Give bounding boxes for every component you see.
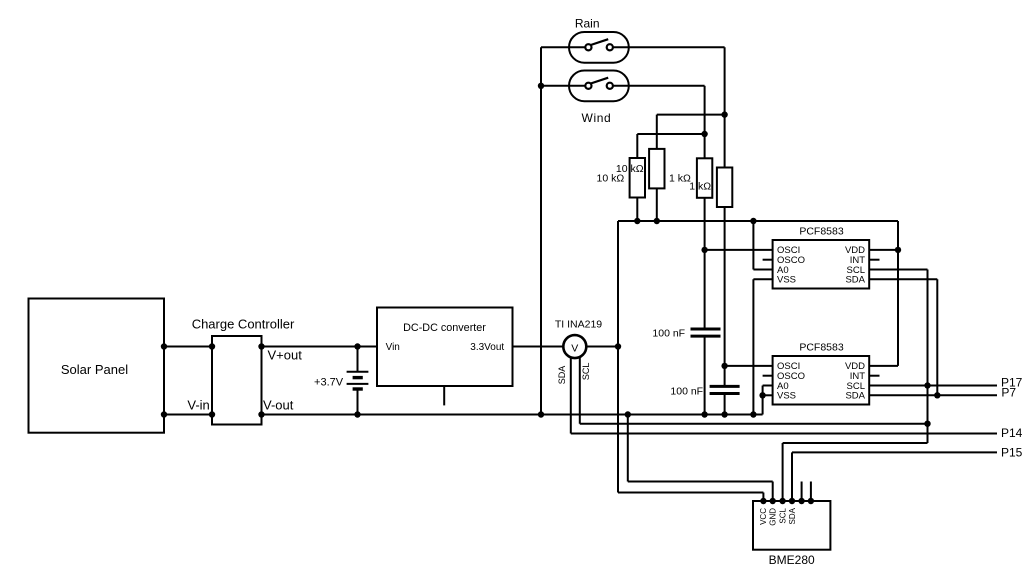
box DC-DC converter — [377, 308, 513, 387]
node solar minus — [161, 411, 167, 417]
wire 3.3V vertical feed — [617, 221, 619, 493]
wire U2 OSCI — [725, 365, 773, 367]
wire DC-DC ground stub — [443, 386, 445, 405]
wire R3 bottom to C1 — [704, 198, 706, 329]
node A0 bus — [750, 218, 756, 224]
svg-text:Solar Panel: Solar Panel — [61, 362, 128, 377]
wire U2 OSCO stub — [763, 375, 773, 377]
svg-text:3.3Vout: 3.3Vout — [470, 342, 504, 353]
switch contact wind right — [607, 83, 613, 89]
wire BME280 stub pin5 — [801, 482, 803, 502]
svg-text:SDA: SDA — [557, 366, 567, 385]
wire U1 VSS vertical to ground bus — [752, 279, 754, 414]
capacitor C2 top plate — [710, 385, 740, 388]
wire U1 SCL — [869, 269, 927, 271]
node U1 VDD — [895, 247, 901, 253]
wire P17 line — [869, 385, 997, 387]
node 3.3V tap — [615, 343, 621, 349]
node BME280 SCL pin — [779, 498, 785, 504]
resistor R4 1k — [717, 168, 732, 208]
wire U1 INT stub — [869, 259, 879, 261]
svg-text:DC-DC converter: DC-DC converter — [403, 322, 486, 334]
node cc V-in — [209, 411, 215, 417]
node BME280 GND pin — [770, 498, 776, 504]
node BME280 pin6 — [808, 498, 814, 504]
node BME280 pin5 — [798, 498, 804, 504]
wire U2 A0 — [763, 385, 773, 387]
wire BME280 SDA vertical — [791, 452, 793, 501]
wire R2 top lead — [656, 115, 658, 149]
node battery top — [354, 343, 360, 349]
wire rain switch left — [541, 46, 588, 48]
meter circle INA219 — [563, 335, 586, 358]
node cc V+out — [258, 343, 264, 349]
svg-text:Charge Controller: Charge Controller — [192, 317, 295, 332]
svg-text:1 kΩ: 1 kΩ — [689, 181, 711, 193]
svg-text:SCL: SCL — [778, 507, 787, 523]
wire VSS corner to bus — [753, 414, 762, 416]
wire BME280 VCC vertical — [762, 493, 764, 502]
wire U1 OSCO stub — [763, 259, 773, 261]
wire R1 bottom lead — [636, 198, 638, 222]
wire 3.3V top bus — [618, 220, 898, 222]
svg-text:+3.7V: +3.7V — [314, 376, 344, 388]
node SDA P7 — [934, 392, 940, 398]
svg-text:VSS: VSS — [777, 275, 796, 286]
node cc V-out — [258, 411, 264, 417]
svg-text:GND: GND — [769, 508, 778, 526]
switch contact rain left — [585, 44, 591, 50]
resistor R2 10k — [649, 149, 664, 189]
op-amp U1 PCF8583 box — [773, 240, 870, 289]
node SCL ina — [924, 421, 930, 427]
resistor R3 1k — [697, 158, 712, 198]
wire rain vertical — [724, 47, 726, 114]
svg-text:10 kΩ: 10 kΩ — [596, 172, 624, 184]
svg-text:SDA: SDA — [788, 507, 797, 524]
svg-text:SDA: SDA — [845, 275, 865, 286]
svg-text:P15: P15 — [1001, 445, 1023, 459]
svg-text:V-in: V-in — [187, 398, 209, 413]
svg-text:V: V — [571, 342, 578, 354]
node wind common — [538, 83, 544, 89]
op-amp U2 PCF8583 box — [773, 356, 870, 405]
node C2 ground — [721, 411, 727, 417]
box Charge Controller — [212, 336, 262, 425]
node U1 OSCI tap — [701, 247, 707, 253]
wire battery top lead — [357, 347, 359, 372]
wire U2 INT stub — [869, 375, 879, 377]
svg-text:BME280: BME280 — [769, 553, 815, 567]
switch contact wind left — [585, 83, 591, 89]
wire U2 VSS down corner — [762, 395, 764, 414]
wire rain branch horizontal — [657, 114, 725, 116]
switch contact rain right — [607, 44, 613, 50]
wire C2 bottom lead — [724, 394, 726, 415]
wire wind switch right — [610, 85, 705, 87]
switch pill Rain — [569, 32, 629, 63]
wire GND feed vertical — [627, 415, 629, 482]
node VSS ground — [750, 411, 756, 417]
wire DC-DC 3.3V output to INA219 — [513, 346, 619, 348]
svg-text:TI INA219: TI INA219 — [555, 319, 602, 331]
wire BME280 VCC horizontal — [618, 492, 763, 494]
node SCL P17 — [924, 382, 930, 388]
box BME280 — [753, 501, 830, 550]
svg-text:PCF8583: PCF8583 — [799, 226, 844, 238]
battery B1 plate short top — [353, 376, 363, 379]
node BME280 VCC pin — [760, 498, 766, 504]
wire U2 VSS — [763, 394, 773, 396]
node BME280 SDA pin — [789, 498, 795, 504]
svg-text:P14: P14 — [1001, 426, 1023, 440]
node R1 bus — [634, 218, 640, 224]
svg-text:Vin: Vin — [386, 342, 400, 353]
node U2 VSS A0 — [759, 392, 765, 398]
node switch common ground — [538, 411, 544, 417]
battery B1 plate long bottom — [347, 383, 369, 385]
wire R2 bottom lead — [656, 188, 658, 221]
wire U1 VSS — [753, 278, 772, 280]
svg-text:Wind: Wind — [582, 111, 612, 125]
svg-text:VSS: VSS — [777, 391, 796, 402]
battery B1 plate long top — [347, 371, 369, 373]
wire U1 A0 — [753, 269, 772, 271]
wire U1 SDA — [869, 278, 937, 280]
wire solar to charge controller plus — [164, 346, 212, 348]
wire R4 bottom to C2 — [724, 207, 726, 386]
svg-text:100 nF: 100 nF — [652, 327, 685, 339]
wire R4 top lead — [724, 115, 726, 168]
node gnd bme feed — [625, 411, 631, 417]
wire U1 OSCI — [705, 249, 773, 251]
switch lever rain — [591, 39, 609, 45]
svg-text:P7: P7 — [1001, 386, 1016, 400]
svg-text:VCC: VCC — [759, 508, 768, 525]
wire C1 bottom lead — [704, 336, 706, 414]
switch pill Wind — [569, 71, 629, 102]
wire VDD to U1 — [869, 249, 898, 251]
wire INA219 SDA vertical — [570, 354, 572, 434]
switch lever wind — [591, 78, 609, 84]
node wind branch — [701, 131, 707, 137]
wire solar to charge controller V-in — [164, 414, 212, 416]
node rain branch — [721, 111, 727, 117]
wire wind switch left — [541, 85, 588, 87]
wire P14 line — [571, 433, 997, 435]
wire rain switch right — [610, 46, 725, 48]
wire BME280 GND horizontal — [628, 481, 773, 483]
wire SDA vertical — [936, 279, 938, 395]
wire BME280 stub pin6 — [810, 482, 812, 502]
svg-text:1 kΩ: 1 kΩ — [669, 173, 691, 185]
wire wind branch horizontal — [637, 133, 704, 135]
wire SCL vertical — [927, 270, 929, 444]
box Solar Panel — [29, 299, 165, 433]
capacitor C1 top plate — [691, 328, 721, 331]
wire ground bus — [262, 414, 754, 416]
svg-text:V+out: V+out — [268, 347, 303, 362]
wire P7 line — [869, 394, 997, 396]
wire U2 A0 vertical — [762, 386, 764, 396]
svg-text:V-out: V-out — [263, 398, 294, 413]
svg-text:SCL: SCL — [581, 363, 591, 381]
wire BME280 GND vertical — [772, 482, 774, 502]
wire P15 line — [792, 451, 997, 453]
wire VDD to U2 — [869, 365, 898, 367]
wire wind vertical — [704, 86, 706, 134]
wire U1 A0 vertical to 3.3V bus — [752, 221, 754, 270]
wire switch common vertical — [540, 47, 542, 414]
svg-text:PCF8583: PCF8583 — [799, 342, 844, 354]
wire charge controller V+out to DC-DC Vin — [262, 346, 378, 348]
wire BME280 SCL horizontal — [783, 442, 928, 444]
wire battery bottom lead — [357, 389, 359, 415]
node battery bottom — [354, 411, 360, 417]
battery B1 plate short bottom — [353, 387, 363, 390]
node solar plus — [161, 343, 167, 349]
capacitor C1 bottom plate — [691, 335, 721, 338]
svg-text:Rain: Rain — [575, 17, 600, 31]
wire R1 top lead — [636, 134, 638, 158]
wire R3 top lead — [704, 134, 706, 158]
resistor R1 10k — [630, 158, 645, 198]
wire INA219 SCL vertical — [579, 355, 581, 424]
svg-text:SDA: SDA — [845, 391, 865, 402]
svg-text:100 nF: 100 nF — [670, 386, 703, 398]
capacitor C2 bottom plate — [710, 392, 740, 395]
node R2 bus — [654, 218, 660, 224]
wire SCL horizontal — [580, 423, 928, 425]
node C1 ground — [701, 411, 707, 417]
node U2 OSCI tap — [721, 363, 727, 369]
wire BME280 SCL vertical — [782, 443, 784, 501]
wire VDD vertical — [897, 221, 899, 366]
node cc in plus — [209, 343, 215, 349]
